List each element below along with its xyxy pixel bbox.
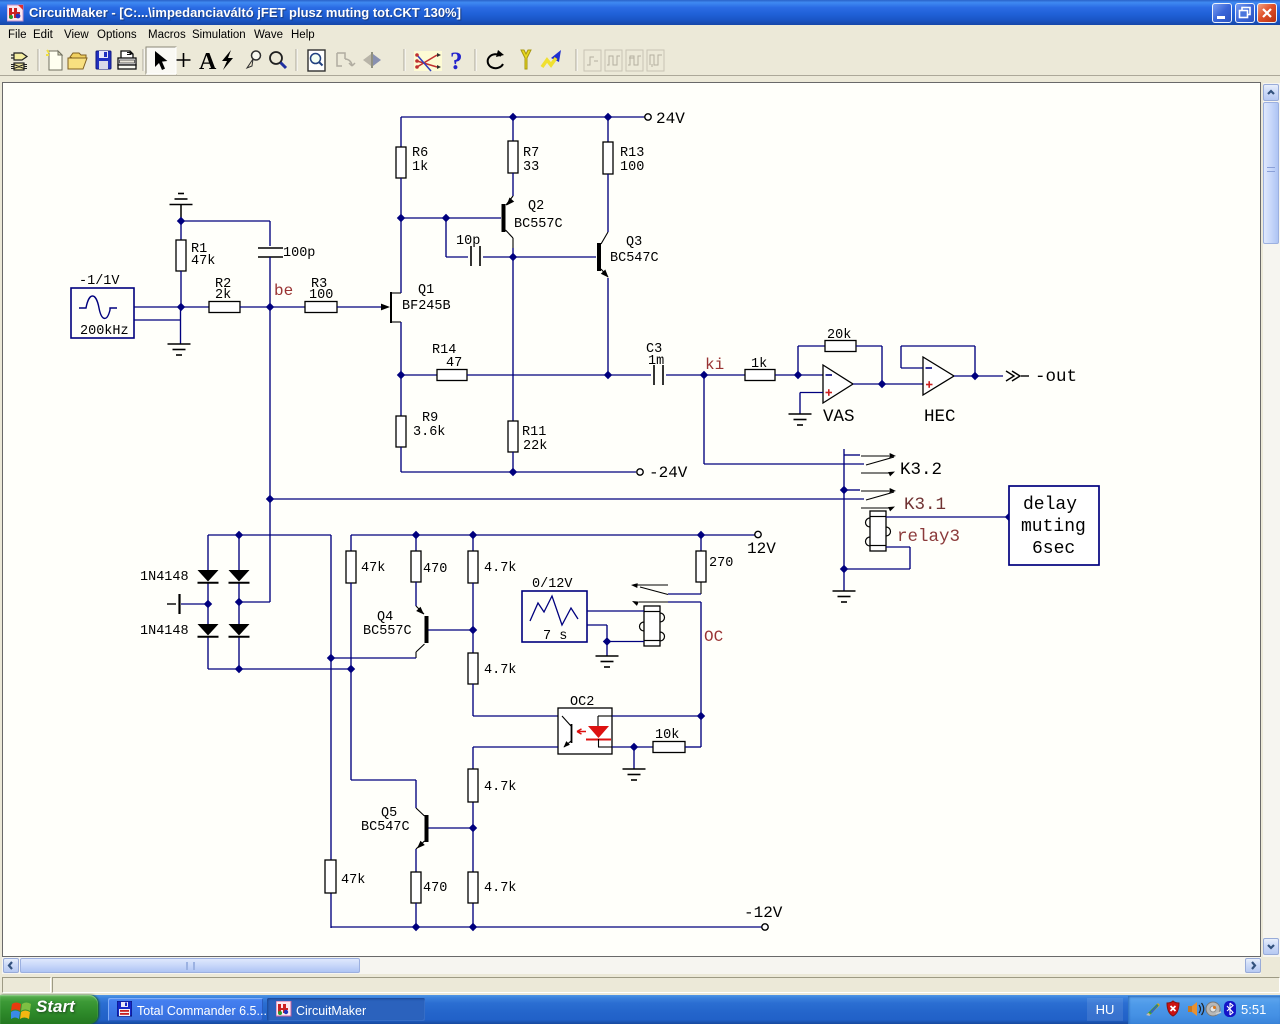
diode D3 1N4148 — [229, 570, 250, 583]
svg-text:Q2: Q2 — [528, 199, 544, 214]
resistor 4.7k first — [468, 535, 516, 583]
revert page (gray) — [337, 53, 355, 66]
svg-text:10k: 10k — [655, 728, 679, 743]
svg-text:muting: muting — [1021, 517, 1086, 537]
wire 1k to VAS input — [775, 374, 823, 376]
resistor R7 33 — [508, 141, 539, 175]
wire HEC output — [954, 375, 1003, 377]
optocoupler OC2 — [558, 695, 612, 754]
svg-text:K3.1: K3.1 — [904, 495, 946, 515]
wire Q2 base row — [401, 217, 501, 219]
transistor Q1 BF245B (JFET) — [381, 283, 451, 323]
svg-text:100: 100 — [309, 288, 333, 303]
wire Q2 collector to rail — [512, 248, 514, 257]
capacitor C3 1m — [646, 342, 664, 385]
wire 470 to Q4 emitter — [415, 582, 417, 606]
svg-text:4.7k: 4.7k — [484, 561, 516, 576]
node VAS output — [878, 380, 886, 388]
label net OC — [704, 628, 723, 646]
label net ki — [705, 356, 724, 374]
diode D4 1N4148 — [229, 624, 250, 637]
wire 12V rail — [351, 534, 755, 536]
node K bus ground — [840, 565, 848, 573]
wire R3 to Q1 gate — [337, 306, 381, 308]
svg-text:R9: R9 — [422, 411, 438, 426]
node source/R1/R2 — [177, 303, 185, 311]
resistor R14 47 — [432, 343, 467, 381]
wire coil bottom to ground node — [607, 641, 644, 643]
wire R11 column — [512, 257, 514, 421]
wire ki to 1k — [704, 374, 745, 376]
ground VAS — [789, 414, 812, 425]
open folder — [68, 53, 87, 69]
terminal -24V — [637, 464, 688, 482]
node R1 top — [177, 217, 185, 225]
svg-text:Q4: Q4 — [377, 610, 393, 625]
wire node to C3 — [608, 374, 651, 376]
svg-text:OC2: OC2 — [570, 695, 594, 710]
node bridge top right column — [235, 531, 243, 539]
svg-text:0/12V: 0/12V — [532, 577, 573, 592]
svg-text:7 s: 7 s — [543, 629, 567, 644]
arrow tool selected — [146, 47, 176, 74]
wire R13 bottom to Q3 — [607, 174, 609, 232]
wire V2 minus to ground node — [587, 625, 607, 642]
wire OC2 LED anode to OC column — [612, 715, 701, 717]
svg-text:4.7k: 4.7k — [484, 881, 516, 896]
wire R1 top to 100p top — [181, 220, 270, 222]
svg-text:BF245B: BF245B — [402, 299, 451, 314]
vertical scrollbar — [1263, 83, 1280, 957]
svg-text:Q5: Q5 — [381, 806, 397, 821]
node V2 ground — [603, 637, 611, 645]
wire be column down — [269, 307, 271, 602]
wire node to 10p — [446, 218, 468, 257]
node VAS inverting input — [794, 371, 802, 379]
wire Q5 collector from 47k column — [351, 780, 416, 808]
node 12V/270 — [697, 531, 705, 539]
wire be column to bridge mid right — [239, 601, 270, 603]
node 24V rail / R7 — [509, 113, 517, 121]
rotate — [488, 50, 504, 68]
ground source — [168, 344, 191, 355]
svg-text:10p: 10p — [456, 234, 480, 249]
diode D1 1N4148 — [198, 570, 219, 583]
resistor R9 3.6k — [396, 375, 445, 447]
wire R14 to Q3 emitter node — [467, 374, 608, 376]
svg-text:6sec: 6sec — [1032, 539, 1075, 559]
wire bridge left column — [207, 535, 209, 669]
wire R7 bottom to Q2 emitter — [512, 173, 514, 196]
wire Q4 collector row — [331, 657, 416, 659]
svg-text:2k: 2k — [215, 288, 231, 303]
resistor 10k — [653, 728, 685, 753]
wire 4.7k to Q4 base node — [472, 583, 474, 630]
wire 4.7k to OC2 collector pin — [473, 684, 558, 716]
node -24V rail / R11 — [509, 468, 517, 476]
node left column / Q4 collector row — [327, 654, 335, 662]
svg-text:BC547C: BC547C — [610, 251, 659, 266]
ground 10k — [623, 747, 646, 780]
print — [118, 51, 136, 69]
resistor R2 2k — [209, 277, 240, 313]
wire VAS feedback right — [856, 346, 882, 384]
svg-text:ki: ki — [705, 356, 724, 374]
wire bridge top rail — [208, 534, 331, 536]
menu bar — [0, 25, 1280, 45]
resistor 470 upper — [411, 535, 447, 582]
transistor Q4 BC557C — [363, 606, 429, 658]
wire ki node to K3.2 — [704, 375, 864, 464]
node ki — [700, 371, 708, 379]
svg-text:47k: 47k — [341, 873, 365, 888]
wire source plus to node — [134, 306, 181, 308]
svg-text:relay3: relay3 — [897, 527, 960, 547]
wire R6 top lead — [400, 117, 402, 147]
wire relay3 bottom pin to ground bus — [844, 547, 910, 569]
title bar — [0, 0, 1280, 25]
resistor 470 lower — [411, 872, 447, 903]
transistor Q2 BC557C — [502, 196, 563, 248]
node 12V/4.7k — [469, 531, 477, 539]
wire 10p to collector node — [483, 256, 513, 258]
node base row / 10p — [442, 214, 450, 222]
split view — [363, 52, 381, 68]
svg-text:47: 47 — [446, 356, 462, 371]
node bottom rail / 4.7k — [469, 923, 477, 931]
port -out — [1006, 367, 1077, 387]
svg-text:33: 33 — [523, 160, 539, 175]
ground V2 — [596, 642, 619, 668]
wire collector rail to Q3 base — [513, 256, 596, 258]
wire 47k column down — [350, 583, 352, 780]
switch OC relay contact — [631, 583, 668, 606]
resistor 20k feedback — [825, 328, 856, 352]
node Q3 emitter / row — [604, 371, 612, 379]
wire VAS plus input to ground — [800, 393, 823, 415]
wire 470 to bottom rail — [415, 903, 417, 927]
ground K bus — [833, 591, 856, 602]
wire node to R2 — [181, 306, 209, 308]
svg-text:R13: R13 — [620, 146, 644, 161]
wire VAS feedback left — [798, 346, 825, 375]
wire 24V rail — [401, 116, 645, 118]
svg-text:-out: -out — [1035, 367, 1077, 387]
wire HEC feedback — [901, 346, 975, 376]
node K bus / K3.1 — [840, 486, 848, 494]
svg-text:470: 470 — [423, 881, 447, 896]
svg-text:24V: 24V — [656, 110, 685, 128]
waveform buttons (disabled) — [584, 50, 664, 71]
op-amp HEC — [923, 357, 956, 427]
lightning — [222, 50, 233, 70]
probe — [247, 51, 261, 68]
wire Q5 base row — [429, 827, 474, 829]
svg-text:47k: 47k — [191, 254, 215, 269]
zoom page — [308, 50, 325, 71]
wire OC2 emitter to lower 4.7k — [473, 747, 558, 927]
wire source minus to ground — [134, 307, 181, 344]
svg-text:OC: OC — [704, 628, 723, 646]
svg-text:Q1: Q1 — [418, 283, 434, 298]
node OC column / LED — [697, 712, 705, 720]
resistor R11 22k — [508, 421, 547, 454]
wire K3.1 feed — [844, 489, 860, 491]
wire left column x331 — [330, 535, 332, 928]
wire Q1 source down — [400, 322, 402, 375]
resistor 1k — [745, 357, 775, 381]
label 1N4148 lower — [140, 624, 189, 639]
resistor R1 47k — [176, 221, 215, 307]
relay coil OC — [640, 606, 665, 646]
wire bottom rail -12V — [331, 926, 762, 928]
node Q5 base — [469, 824, 477, 832]
svg-text:3.6k: 3.6k — [413, 425, 445, 440]
wire node to R14 — [401, 374, 437, 376]
switch K3.1 — [861, 488, 946, 515]
ground top left — [170, 194, 193, 222]
status bar — [0, 975, 1280, 995]
magnifier — [270, 52, 286, 68]
wire OC2 cathode to 10k — [612, 746, 653, 748]
svg-text:1N4148: 1N4148 — [140, 624, 189, 639]
svg-text:1k: 1k — [751, 357, 767, 372]
svg-text:-24V: -24V — [649, 464, 688, 482]
wire C3 to ki node — [666, 374, 704, 376]
svg-text:BC557C: BC557C — [363, 624, 412, 639]
svg-text:delay: delay — [1023, 495, 1077, 515]
terminal -12V — [744, 904, 783, 930]
node be column / K3.1 wire — [266, 495, 274, 503]
chip list icon — [11, 53, 27, 70]
svg-text:270: 270 — [709, 556, 733, 571]
svg-text:Q3: Q3 — [626, 235, 642, 250]
svg-text:20k: 20k — [827, 328, 851, 343]
source V2 0/12V 7s — [522, 577, 587, 644]
node bridge mid left — [204, 600, 212, 608]
switch K3.2 — [861, 453, 942, 480]
horizontal scrollbar — [2, 957, 1261, 974]
svg-text:100p: 100p — [283, 246, 315, 261]
wire be column to K3.1 — [270, 498, 864, 500]
resistor R3 100 — [305, 277, 337, 313]
svg-text:4.7k: 4.7k — [484, 663, 516, 678]
wire 270 to OC switch — [668, 582, 701, 594]
wire VAS output — [853, 383, 882, 385]
svg-text:200kHz: 200kHz — [80, 324, 129, 339]
wire K contact bus vertical — [844, 449, 860, 591]
node 12V/470 — [412, 531, 420, 539]
relay coil relay3 — [866, 511, 961, 551]
svg-text:12V: 12V — [747, 540, 776, 558]
mixed mode icon — [414, 51, 442, 71]
svg-text:1m: 1m — [648, 354, 664, 369]
svg-text:be: be — [274, 282, 293, 300]
resistor 4.7k second — [468, 630, 516, 684]
run wave — [542, 50, 561, 67]
label net be — [274, 282, 293, 300]
svg-text:470: 470 — [423, 562, 447, 577]
wire R13 top lead — [607, 117, 609, 142]
resistor R6 1k — [396, 146, 428, 178]
node bridge bottom right column — [235, 665, 243, 673]
wire Q5 emitter to 470 — [415, 849, 417, 872]
svg-text:1k: 1k — [412, 160, 428, 175]
wire R11 bottom — [512, 452, 514, 472]
transistor Q3 BC547C — [597, 232, 659, 278]
svg-text:R7: R7 — [523, 146, 539, 161]
box delay muting 6sec — [1009, 486, 1099, 565]
resistor 47k lower — [325, 860, 365, 893]
wire R7 top lead — [512, 117, 514, 141]
wrench Y — [521, 50, 531, 69]
svg-text:4.7k: 4.7k — [484, 780, 516, 795]
taskbar — [0, 995, 1280, 1024]
node Q2 collector rail — [509, 253, 517, 261]
capacitor 10p — [456, 234, 480, 266]
terminal 12V — [747, 531, 776, 558]
wire Q3 emitter down — [607, 278, 609, 375]
node 47k column / bridge rail — [347, 665, 355, 673]
resistor 47k upper — [346, 535, 385, 583]
new document — [46, 50, 62, 70]
wire Q1 drain up — [400, 218, 402, 293]
wire R6 bottom to node — [400, 178, 402, 218]
wire VAS output to HEC — [882, 383, 923, 385]
resistor 270 — [696, 535, 733, 582]
node be — [266, 303, 274, 311]
node R6/Q2 base row — [397, 214, 405, 222]
svg-text:BC557C: BC557C — [514, 217, 563, 232]
svg-text:47k: 47k — [361, 561, 385, 576]
wire V2 plus to coil — [587, 610, 644, 612]
resistor 4.7k fourth — [468, 872, 516, 903]
transistor Q5 BC547C — [361, 806, 429, 849]
wire bridge bottom rail — [208, 668, 351, 670]
node Q4 base — [469, 626, 477, 634]
svg-text:BC547C: BC547C — [361, 820, 410, 835]
stub terminal at bridge mid left — [167, 594, 208, 614]
separators — [38, 49, 577, 71]
diode D2 1N4148 — [198, 624, 219, 637]
label 1N4148 upper — [140, 570, 189, 585]
capacitor 100p — [258, 221, 315, 307]
resistor R13 100 — [603, 142, 644, 175]
node 24V rail / R13 — [604, 113, 612, 121]
svg-text:R11: R11 — [522, 425, 546, 440]
plus tool — [177, 53, 191, 67]
node bottom rail / 470 — [412, 923, 420, 931]
terminal 24V — [645, 110, 685, 128]
node delay box input — [1005, 513, 1013, 521]
wire R9 bottom to -24V rail — [401, 447, 636, 472]
node Q1 source / R14 — [397, 371, 405, 379]
wire bridge right column — [238, 535, 240, 669]
source V1 -1/1V 200kHz — [71, 274, 134, 339]
op-amp VAS — [823, 365, 855, 427]
svg-text:HEC: HEC — [924, 407, 956, 427]
wire relay3 top pin to delay box — [886, 516, 1009, 518]
save floppy — [96, 51, 111, 69]
svg-text:100: 100 — [620, 160, 644, 175]
wire 10k to OC column — [685, 716, 701, 747]
wire be node to R3 — [270, 306, 305, 308]
node bridge mid right — [235, 598, 243, 606]
svg-text:K3.2: K3.2 — [900, 460, 942, 480]
svg-text:-12V: -12V — [744, 904, 783, 922]
svg-text:VAS: VAS — [823, 407, 855, 427]
wire R2 to be node — [240, 306, 270, 308]
node HEC output — [971, 372, 979, 380]
svg-text:22k: 22k — [523, 439, 547, 454]
svg-text:-1/1V: -1/1V — [79, 274, 120, 289]
wire OC switch to OC2 column — [668, 602, 701, 716]
node 10k ground — [630, 743, 638, 751]
wire Q4 base to 4.7k column — [429, 629, 474, 631]
svg-text:R6: R6 — [412, 146, 428, 161]
resistor 4.7k third — [468, 769, 516, 802]
svg-text:1N4148: 1N4148 — [140, 570, 189, 585]
toolbar — [0, 45, 1280, 76]
